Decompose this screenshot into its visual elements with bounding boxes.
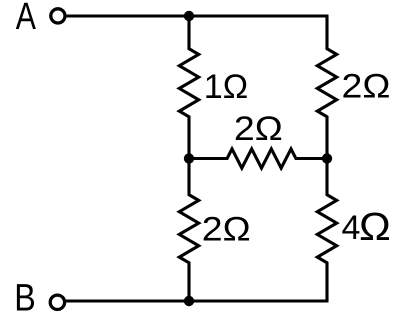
svg-text:Ω: Ω [359,206,391,249]
svg-text:4: 4 [342,209,361,247]
resistor R5 4ohm vertical right bottom [317,159,336,302]
junction dot bottom node [184,296,194,306]
svg-text:2Ω: 2Ω [234,110,283,148]
junction dot middle left node [184,153,194,163]
terminal A circle [51,9,65,23]
svg-text:A: A [16,0,37,38]
terminal B circle [50,295,64,309]
resistor R1 1ohm vertical left top [179,16,198,159]
resistor R2 2ohm vertical right top [317,16,336,159]
wire top: terminal A to top-right corner [67,14,329,17]
svg-text:B: B [14,278,36,315]
resistor R4 2ohm vertical left bottom [179,159,198,302]
resistor R3 2ohm horizontal middle [189,149,327,168]
junction dot top node [184,11,194,21]
svg-text:2Ω: 2Ω [202,211,251,249]
wire bottom: terminal B to bottom-right corner [66,299,329,302]
svg-text:2Ω: 2Ω [342,68,391,106]
junction dot middle right node [322,153,332,163]
svg-text:1Ω: 1Ω [204,68,248,106]
